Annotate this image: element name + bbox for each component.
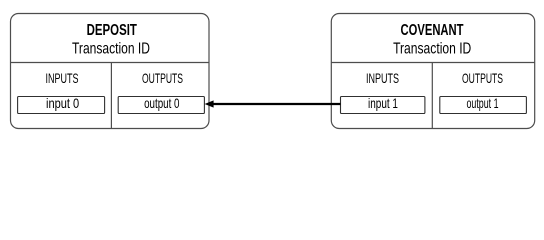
- svg-text:OUTPUTS: OUTPUTS: [462, 70, 503, 86]
- svg-text:OUTPUTS: OUTPUTS: [142, 70, 183, 86]
- svg-text:input 1: input 1: [368, 95, 398, 111]
- svg-text:COVENANT: COVENANT: [401, 22, 464, 39]
- svg-text:output 1: output 1: [466, 95, 498, 111]
- svg-text:Transaction ID: Transaction ID: [393, 41, 471, 58]
- svg-text:input 0: input 0: [46, 95, 79, 111]
- svg-text:INPUTS: INPUTS: [46, 70, 79, 86]
- svg-text:INPUTS: INPUTS: [366, 70, 399, 86]
- svg-text:Transaction ID: Transaction ID: [72, 41, 150, 58]
- svg-text:DEPOSIT: DEPOSIT: [87, 22, 137, 39]
- svg-text:output 0: output 0: [144, 95, 180, 111]
